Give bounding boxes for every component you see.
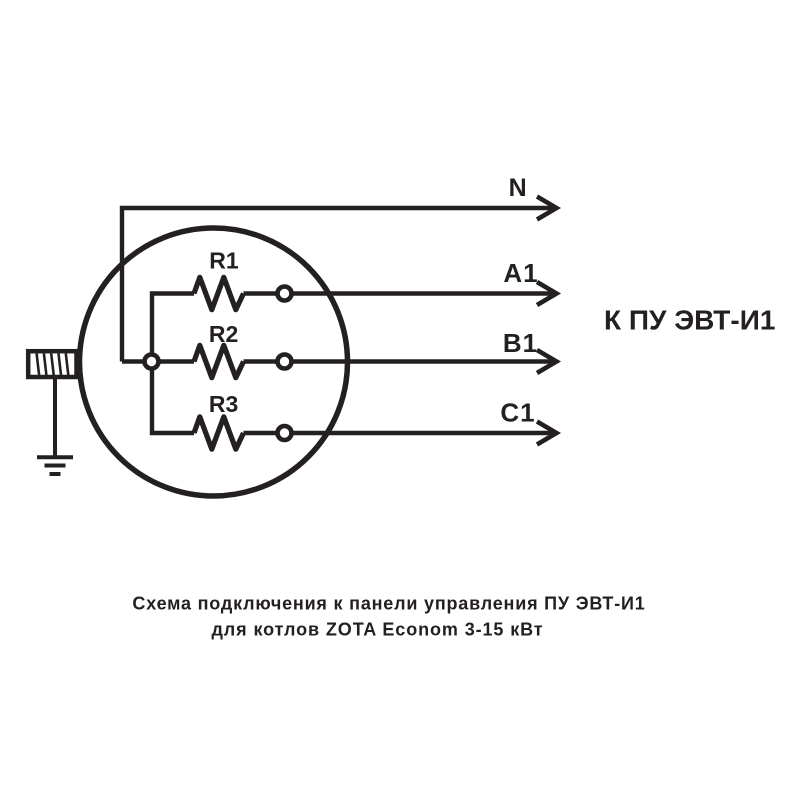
svg-text:R1: R1 [209,248,239,274]
svg-text:A1: A1 [503,258,538,288]
svg-text:R3: R3 [209,391,238,417]
svg-text:B1: B1 [503,328,538,358]
svg-text:К ПУ ЭВТ-И1: К ПУ ЭВТ-И1 [604,305,775,336]
svg-text:Схема подключения к панели упр: Схема подключения к панели управления ПУ… [132,594,645,614]
svg-text:N: N [509,174,527,202]
svg-text:для котлов ZOTA Econom 3-15 кВ: для котлов ZOTA Econom 3-15 кВт [211,620,543,640]
svg-text:R2: R2 [209,321,238,347]
svg-text:C1: C1 [500,398,535,428]
